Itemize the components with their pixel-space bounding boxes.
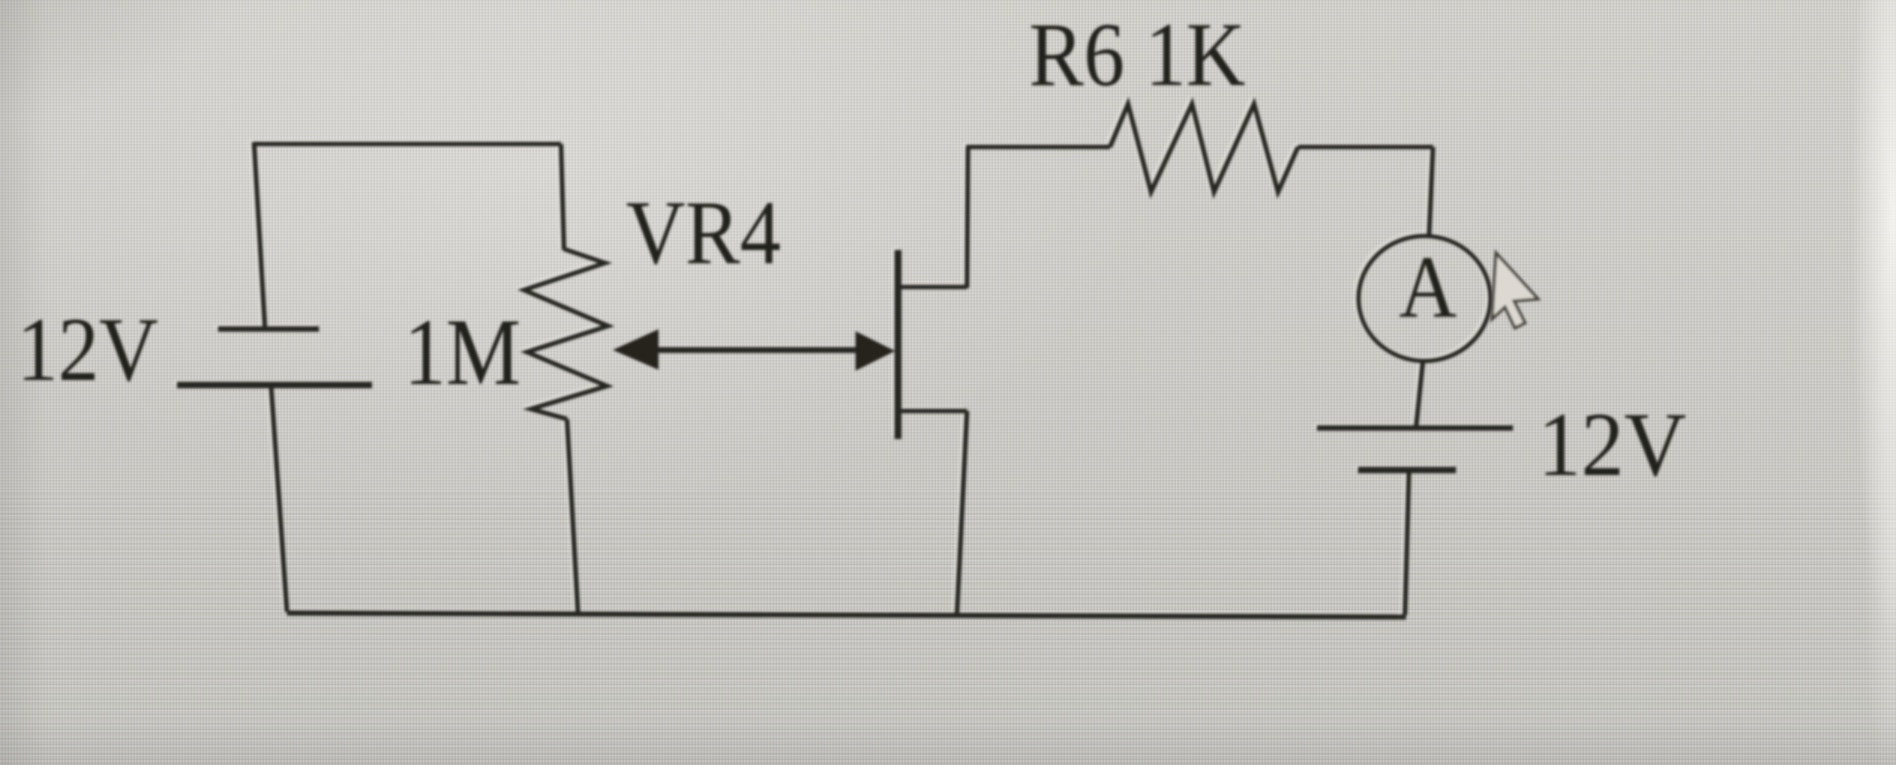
wire: left loop top	[254, 142, 561, 147]
transistor Q1 gate bar	[895, 250, 902, 439]
transistor Q1 source lead horizontal	[899, 409, 967, 414]
wire: bottom rail	[287, 613, 1406, 617]
wire: right loop top right segment	[1298, 145, 1433, 150]
wire: pot bottom lead	[567, 419, 578, 613]
mouse cursor	[1492, 253, 1538, 328]
svg-text:12V: 12V	[17, 299, 158, 400]
svg-text:1M: 1M	[404, 300, 521, 405]
wiper arrowhead right at gate	[856, 332, 894, 370]
svg-text:A: A	[1399, 239, 1457, 337]
wire: right loop right vertical to ammeter	[1429, 147, 1433, 237]
wire: drain riser	[967, 147, 968, 288]
wire: left loop left vertical upper	[254, 142, 265, 329]
wire: left loop left vertical lower	[271, 385, 287, 612]
wire: battery V2 to bottom rail	[1405, 470, 1409, 615]
ammeter A1 circle	[1359, 236, 1491, 361]
highlight fringe duplicate of line art	[174, 102, 1510, 615]
potentiometer VR4 1M zigzag body	[524, 249, 608, 419]
wire: ammeter to battery V2	[1416, 360, 1423, 428]
battery V1 12V top plate	[218, 326, 319, 332]
wire: source drop	[957, 411, 967, 613]
battery V2 12V bottom plate	[1358, 467, 1456, 474]
battery V1 12V bottom plate	[177, 382, 372, 389]
transistor Q1 drain lead horizontal	[899, 285, 967, 290]
wire: left loop right vertical to pot	[561, 144, 564, 250]
svg-text:VR4: VR4	[626, 182, 781, 283]
battery V2 12V top plate	[1317, 425, 1513, 431]
wiper arrow shaft	[650, 347, 860, 353]
resistor R6 1K zigzag	[1110, 104, 1298, 192]
svg-text:R6 1K: R6 1K	[1029, 4, 1245, 105]
wiper arrowhead left	[614, 330, 658, 369]
svg-text:12V: 12V	[1538, 395, 1686, 496]
wire: right loop top left segment	[966, 145, 1110, 150]
